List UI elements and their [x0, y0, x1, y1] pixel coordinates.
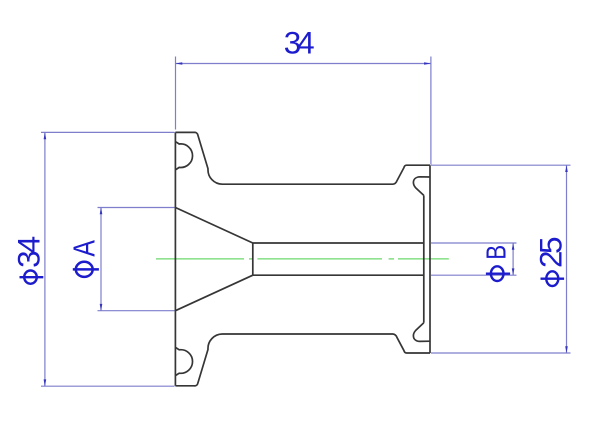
dia34 extension line bottom — [41, 385, 175, 387]
diaB arrow top — [512, 243, 515, 250]
left flange upper groove — [176, 142, 193, 170]
cone end edge — [252, 243, 254, 275]
dim text dia25 — [532, 237, 568, 286]
left flange face — [174, 132, 176, 385]
svg-text:34: 34 — [284, 25, 315, 61]
cone lower line — [175, 275, 252, 311]
svg-text:34: 34 — [11, 236, 47, 268]
svg-text:B: B — [481, 245, 512, 260]
right flange lower groove — [413, 323, 430, 342]
dim 34 arrow left — [176, 62, 183, 65]
dim text diaB — [481, 245, 512, 281]
diaB extension line top — [431, 242, 517, 244]
lower outer profile — [175, 334, 430, 386]
upper outer profile — [175, 132, 430, 184]
dim 34 extension line right — [430, 57, 432, 165]
dia34 extension line top — [41, 131, 175, 133]
right flange recess face — [423, 195, 425, 322]
dia34 arrow top — [44, 132, 47, 139]
svg-text:A: A — [67, 240, 101, 257]
dia25 dimension line — [566, 165, 568, 353]
diaA arrow top — [100, 208, 103, 215]
centerline — [156, 258, 449, 260]
diaA extension line bottom — [98, 310, 175, 312]
diaA arrow bottom — [100, 304, 103, 311]
dim text dia34 — [11, 236, 47, 284]
dia25 arrow top — [565, 165, 568, 172]
diaB arrow bottom — [512, 268, 515, 275]
dim text diaA — [67, 240, 101, 277]
diaB extension line bottom — [431, 274, 517, 276]
dia34 arrow bottom — [44, 379, 47, 386]
dia25 arrow bottom — [565, 346, 568, 353]
dim 34 extension line left — [175, 57, 177, 130]
cone upper line — [175, 208, 252, 244]
bore top line — [253, 242, 424, 244]
dia25 extension line top — [431, 164, 571, 166]
diaA dimension line — [100, 208, 102, 311]
diaB dimension line — [512, 243, 514, 275]
diaA extension line top — [98, 207, 175, 209]
right flange face — [429, 165, 431, 353]
dim 34 arrow right — [424, 62, 431, 65]
svg-text:25: 25 — [532, 237, 568, 268]
dia25 extension line bottom — [431, 352, 571, 354]
bore bottom line — [253, 274, 424, 276]
right flange upper groove — [413, 177, 430, 196]
dim 34 dimension line — [176, 63, 431, 65]
dia34 dimension line — [44, 132, 46, 386]
left flange lower groove — [176, 348, 193, 376]
